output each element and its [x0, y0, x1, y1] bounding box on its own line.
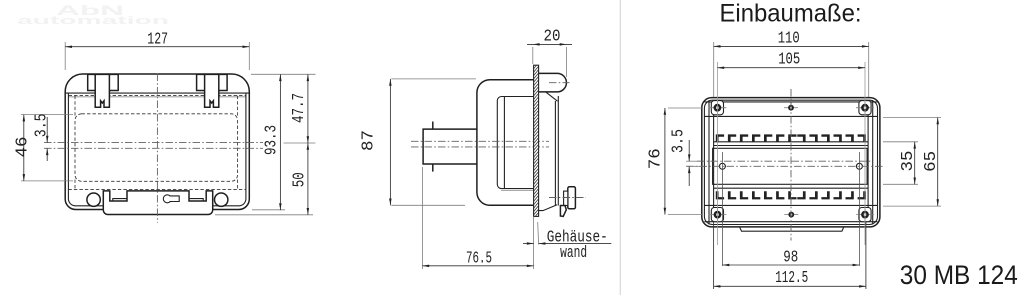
- svg-text:46: 46: [14, 136, 33, 157]
- middle view: flange bottom thin line: [501, 189, 534, 191]
- svg-text:3.5: 3.5: [31, 113, 51, 137]
- left view: bracket notch lip right: [189, 199, 203, 201]
- dimension 110: [713, 42, 715, 97]
- page fold line: [619, 0, 621, 295]
- middle view: frame right face double line: [554, 101, 556, 206]
- left view: hinge clip tongue: [205, 74, 219, 107]
- dimension 20: [532, 47, 534, 64]
- svg-text:65: 65: [922, 151, 941, 172]
- right view: band horizontal lines: [704, 101, 877, 103]
- dimension 3.5 left: [46, 117, 48, 143]
- right view: hole extension lines down: [722, 152, 724, 266]
- dimension 105: [717, 67, 865, 69]
- svg-text:93.3: 93.3: [263, 125, 281, 155]
- svg-text:50: 50: [291, 172, 309, 187]
- left view: lid seam line: [65, 92, 249, 94]
- dimension 76.5: [421, 167, 423, 269]
- middle view: frame top lip over wall: [539, 73, 567, 92]
- left view: vertical centerline: [156, 74, 158, 223]
- dimension 87: [391, 78, 476, 80]
- svg-text:105: 105: [778, 51, 800, 69]
- dimension 35: [883, 141, 918, 143]
- svg-text:20: 20: [544, 26, 561, 45]
- left view: hidden opening dashed rectangle: [75, 114, 238, 182]
- svg-text:127: 127: [147, 31, 168, 50]
- left view: hinge block: [88, 74, 119, 90]
- middle view: latch centerline: [549, 197, 586, 199]
- svg-text:87: 87: [360, 130, 379, 151]
- left view: hinge clip tongue: [95, 74, 109, 107]
- middle view: housing wall hatched: [534, 65, 539, 216]
- middle view: inner flange outline: [497, 97, 533, 189]
- right view: screw column centerlines: [716, 62, 718, 245]
- middle view: latch nut: [564, 191, 568, 205]
- middle view: latch lever: [539, 205, 558, 211]
- dimension 127: [64, 42, 66, 70]
- dimension 93.3: [251, 73, 316, 75]
- right view: middle band: [713, 148, 868, 184]
- left view: screw hole left: [87, 193, 100, 206]
- svg-text:47.7: 47.7: [291, 93, 309, 123]
- right view: center screws: [784, 107, 798, 109]
- svg-text:112.5: 112.5: [775, 269, 808, 288]
- middle view: latch knob: [568, 187, 576, 209]
- dimension 47.7: [284, 142, 316, 144]
- left view: hidden dashed line above bracket: [68, 188, 246, 190]
- middle view: lip centerline tick: [549, 82, 570, 84]
- dimension 76 right view: [668, 107, 702, 109]
- svg-text:35: 35: [899, 150, 918, 171]
- right view: mid side holes: [719, 163, 725, 169]
- right view: bottom tab: [740, 227, 844, 231]
- middle view: nose (cable entry): [423, 129, 477, 164]
- dimension 98: [723, 264, 860, 266]
- left view: DIN-rail bracket: [103, 191, 212, 215]
- left view: housing outer outline: [65, 74, 249, 210]
- left view: horizontal centerline lower: [44, 147, 263, 149]
- svg-text:30 MB 124: 30 MB 124: [900, 260, 1018, 290]
- svg-text:Einbaumaße:: Einbaumaße:: [720, 0, 862, 28]
- left view: hidden dashed line below seam: [69, 94, 246, 96]
- middle view: nose stub marks: [432, 122, 434, 130]
- svg-text:automation: automation: [17, 15, 170, 27]
- right view: corner screws: [708, 107, 726, 109]
- dimension 65: [883, 117, 941, 119]
- svg-text:76: 76: [647, 148, 666, 169]
- right view: outer outline: [702, 98, 880, 227]
- right view: band side walls: [708, 100, 710, 224]
- left view: inner wall line: [68, 94, 246, 206]
- svg-text:98: 98: [783, 249, 798, 267]
- right view: horizontal centerlines: [697, 160, 871, 162]
- left view: screw hole right: [215, 193, 228, 206]
- right view: inner outline: [704, 100, 877, 224]
- dimension 112.5: [713, 222, 715, 289]
- svg-text:76.5: 76.5: [466, 249, 492, 268]
- svg-text:wand: wand: [560, 244, 587, 263]
- left view: horizontal centerline upper: [44, 142, 263, 144]
- dimension 46: [21, 114, 73, 116]
- svg-text:110: 110: [778, 30, 800, 48]
- left view: seam lower thin line: [68, 96, 246, 98]
- dimension 3.5 right view: [686, 160, 700, 162]
- right view: vertical centerline: [790, 89, 792, 241]
- right view: contact teeth rows: [716, 134, 866, 199]
- left view: hinge block: [197, 74, 228, 90]
- left view: bracket keyhole: [163, 195, 171, 203]
- middle view: body outline: [477, 80, 534, 206]
- left view: bracket notch lip left: [113, 199, 127, 201]
- middle view: horizontal centerlines: [411, 140, 549, 142]
- dimension 50: [215, 214, 313, 216]
- right view: screw pockets: [711, 101, 723, 115]
- middle view: flange face line: [503, 97, 505, 189]
- svg-text:3.5: 3.5: [668, 129, 688, 153]
- middle view: latch foot: [560, 206, 566, 217]
- label Gehaeusewand with leader: [537, 222, 540, 245]
